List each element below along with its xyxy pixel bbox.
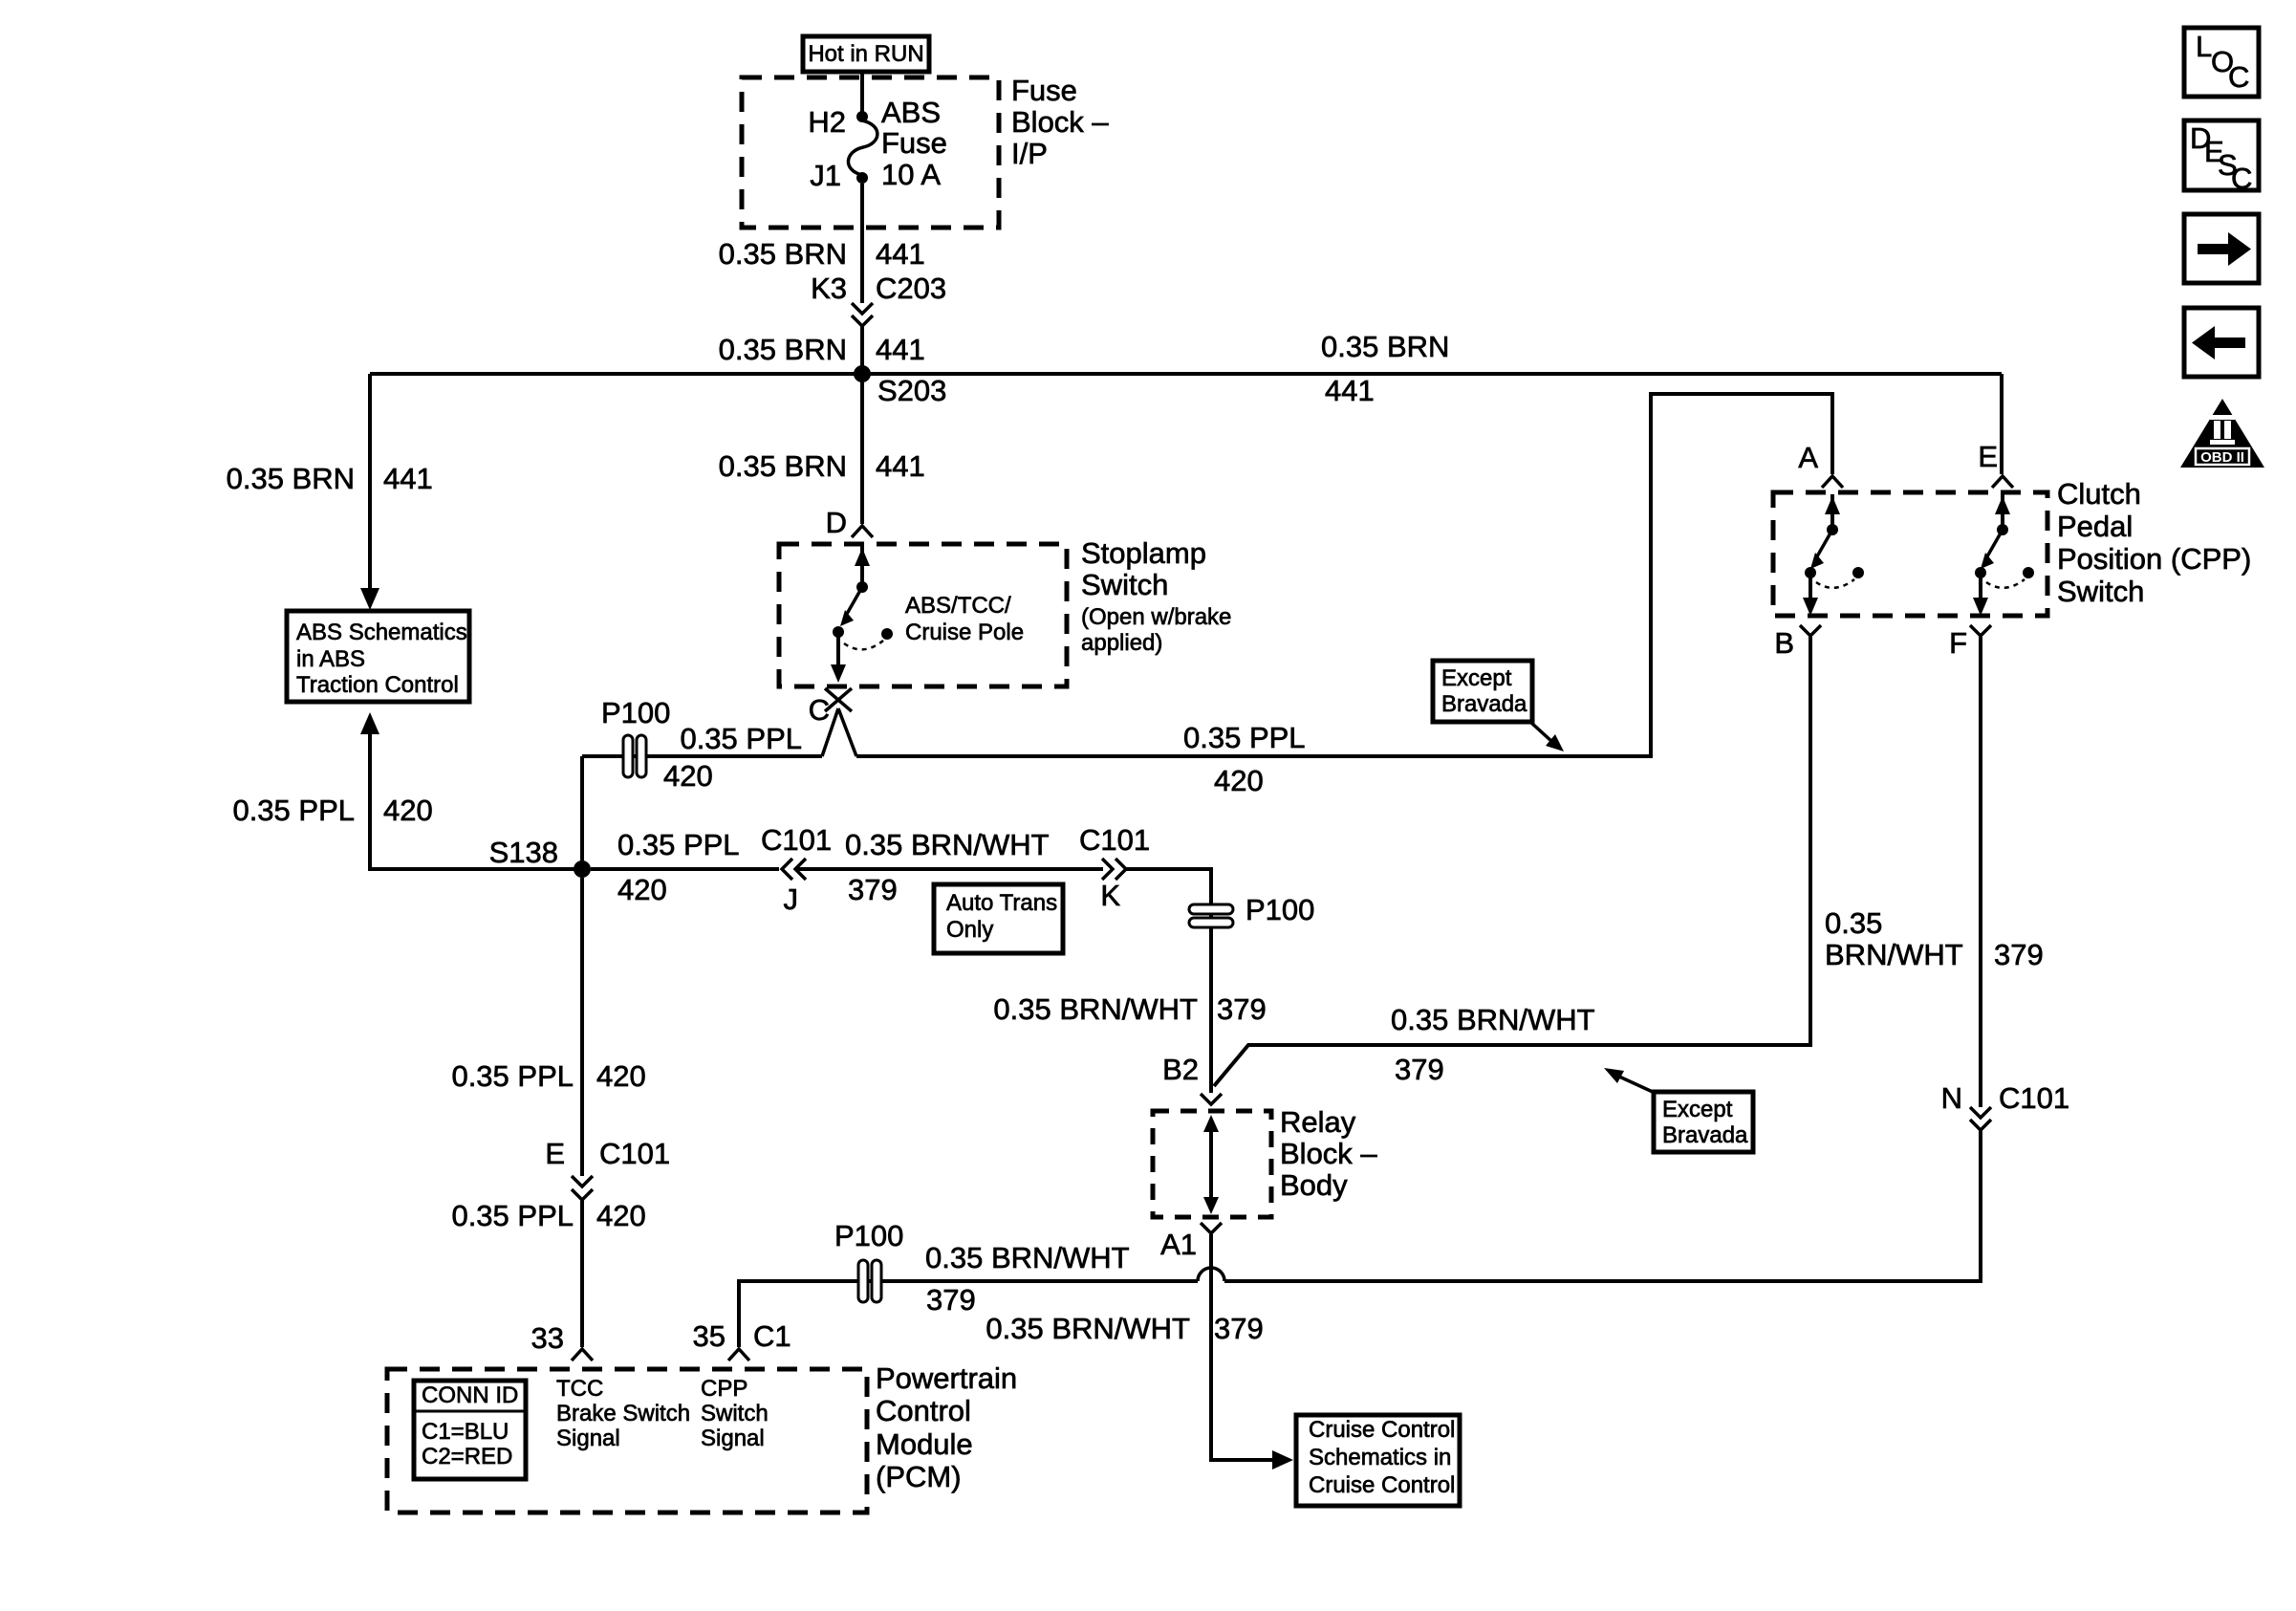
- pin D: [826, 506, 873, 539]
- svg-text:C2=RED: C2=RED: [422, 1444, 512, 1469]
- wire 420 from S138 up to ABS schematics: [232, 712, 575, 869]
- icon LOC: [2184, 28, 2259, 97]
- svg-text:Block –: Block –: [1280, 1137, 1377, 1170]
- svg-text:379: 379: [848, 873, 898, 906]
- svg-text:A: A: [1798, 441, 1818, 474]
- grommet P100: [1189, 893, 1314, 927]
- connector C101 pin J: [761, 823, 832, 916]
- svg-text:35: 35: [693, 1319, 726, 1353]
- svg-text:ABS/TCC/: ABS/TCC/: [905, 593, 1011, 619]
- pin E: [1978, 440, 2013, 488]
- svg-text:Cruise Control: Cruise Control: [1309, 1417, 1455, 1443]
- svg-text:441: 441: [876, 237, 925, 271]
- svg-text:0.35 BRN/WHT: 0.35 BRN/WHT: [925, 1241, 1130, 1274]
- legend box CONN ID C1=BLU C2=RED: [414, 1381, 526, 1479]
- svg-text:379: 379: [1994, 938, 2044, 971]
- svg-text:420: 420: [596, 1059, 646, 1093]
- svg-text:Cruise Pole: Cruise Pole: [905, 620, 1024, 645]
- svg-text:(Open w/brake: (Open w/brake: [1081, 604, 1231, 630]
- svg-text:0.35 BRN: 0.35 BRN: [719, 333, 847, 366]
- power tag Hot in RUN: [803, 36, 929, 72]
- svg-text:P100: P100: [1245, 893, 1314, 926]
- component label Powertrain Control Module (PCM): [876, 1361, 1017, 1493]
- svg-text:Auto Trans: Auto Trans: [946, 890, 1057, 916]
- icon OBD II: [2180, 399, 2264, 468]
- svg-text:TCC: TCC: [556, 1376, 603, 1402]
- svg-text:B2: B2: [1162, 1053, 1199, 1086]
- reference box Auto Trans Only: [934, 884, 1063, 953]
- svg-text:420: 420: [617, 873, 667, 906]
- component label Clutch Pedal Position (CPP) Switch: [2057, 477, 2251, 608]
- pin H2: [808, 105, 868, 139]
- svg-text:F: F: [1949, 626, 1967, 660]
- svg-text:C101: C101: [761, 823, 832, 857]
- svg-text:379: 379: [1214, 1312, 1264, 1345]
- wire 441 left branch to ABS schematics: [227, 374, 433, 610]
- svg-text:C101: C101: [599, 1137, 670, 1170]
- svg-text:441: 441: [383, 462, 433, 495]
- svg-text:0.35 PPL: 0.35 PPL: [617, 828, 740, 861]
- svg-text:0.35 BRN: 0.35 BRN: [719, 237, 847, 271]
- svg-text:Fuse: Fuse: [1011, 74, 1077, 107]
- svg-text:C: C: [2228, 60, 2249, 94]
- svg-text:BRN/WHT: BRN/WHT: [1825, 938, 1963, 971]
- svg-text:C101: C101: [1999, 1081, 2069, 1115]
- svg-text:0.35 PPL: 0.35 PPL: [1183, 721, 1306, 754]
- svg-text:420: 420: [383, 794, 433, 827]
- fuse block I/P dashed box: [742, 77, 999, 228]
- connector C101 pin E: [545, 1137, 670, 1200]
- svg-text:Cruise Control: Cruise Control: [1309, 1472, 1455, 1498]
- wire 441 from S203 to CPP switch pin E: [2000, 374, 2004, 474]
- svg-text:I/P: I/P: [1011, 137, 1048, 170]
- svg-text:S138: S138: [489, 836, 558, 869]
- svg-text:Relay: Relay: [1280, 1105, 1356, 1139]
- svg-text:Powertrain: Powertrain: [876, 1361, 1017, 1395]
- wire 441 bus S203 horizontal: [370, 330, 2002, 407]
- wire 379 from C101 J to C101 K: [797, 828, 1103, 906]
- junction S138: [489, 836, 591, 878]
- svg-text:CONN ID: CONN ID: [422, 1382, 518, 1408]
- reference box ABS Schematics in ABS Traction Control: [287, 611, 469, 702]
- pin F: [1949, 625, 1991, 660]
- svg-text:0.35 BRN/WHT: 0.35 BRN/WHT: [993, 992, 1198, 1026]
- svg-text:Except: Except: [1441, 665, 1512, 691]
- svg-text:0.35 BRN/WHT: 0.35 BRN/WHT: [845, 828, 1050, 861]
- svg-text:P100: P100: [601, 696, 670, 729]
- svg-text:33: 33: [531, 1321, 564, 1355]
- grommet P100: [601, 696, 670, 777]
- wire 379 from C101 K through P100 to relay block B2: [993, 869, 1266, 1093]
- svg-text:Fuse: Fuse: [881, 126, 947, 160]
- svg-text:Block –: Block –: [1011, 105, 1109, 139]
- svg-text:420: 420: [663, 759, 713, 793]
- svg-text:C1: C1: [753, 1319, 791, 1353]
- svg-text:Bravada: Bravada: [1441, 691, 1527, 717]
- svg-text:A1: A1: [1160, 1228, 1197, 1261]
- component label Relay Block - Body: [1280, 1105, 1377, 1202]
- connector C203 pin K3: [811, 272, 946, 326]
- svg-text:E: E: [545, 1137, 565, 1170]
- svg-text:CPP: CPP: [701, 1376, 747, 1402]
- CPP switch contact E-F: [1973, 494, 2034, 616]
- svg-text:10 A: 10 A: [881, 158, 941, 191]
- svg-text:Switch: Switch: [1081, 568, 1168, 601]
- svg-text:C: C: [2231, 162, 2252, 195]
- CPP switch dashed box: [1773, 492, 2047, 616]
- wire 420 from P100 down to S138: [580, 756, 584, 860]
- svg-text:441: 441: [876, 449, 925, 483]
- pin A1: [1160, 1223, 1222, 1261]
- icon DESC: [2184, 120, 2259, 195]
- wire 379 from B2 to CPP switch pin B: [1214, 637, 1810, 1086]
- connector C101 pin K: [1079, 823, 1150, 912]
- svg-text:C203: C203: [876, 272, 946, 305]
- svg-text:379: 379: [926, 1283, 976, 1317]
- pin B2: [1162, 1053, 1222, 1104]
- svg-text:0.35 PPL: 0.35 PPL: [232, 794, 355, 827]
- CPP switch contact A-B: [1803, 494, 1864, 616]
- stoplamp switch dashed box: [779, 544, 1067, 686]
- wire 441 from fuse to connector C203: [719, 184, 925, 303]
- pin 35 connector C1: [693, 1319, 791, 1361]
- wire 420 from S138 to C101 pin J: [591, 828, 779, 906]
- svg-text:0.35 BRN/WHT: 0.35 BRN/WHT: [986, 1312, 1190, 1345]
- icon next arrow: [2184, 214, 2259, 283]
- svg-text:Position (CPP): Position (CPP): [2057, 542, 2251, 576]
- svg-text:K: K: [1100, 879, 1120, 912]
- svg-text:Except: Except: [1662, 1097, 1733, 1122]
- svg-text:Control: Control: [876, 1394, 971, 1427]
- pin label CPP Switch Signal: [701, 1376, 769, 1451]
- svg-text:Schematics in: Schematics in: [1309, 1445, 1451, 1470]
- svg-text:in ABS: in ABS: [296, 646, 365, 672]
- svg-text:420: 420: [596, 1199, 646, 1232]
- svg-text:0.35 PPL: 0.35 PPL: [680, 722, 802, 755]
- svg-text:0.35 BRN: 0.35 BRN: [227, 462, 355, 495]
- svg-text:441: 441: [876, 333, 925, 366]
- wire 441 from S203 to stoplamp switch pin D: [719, 374, 925, 524]
- svg-text:ABS Schematics: ABS Schematics: [296, 620, 467, 645]
- svg-text:ABS: ABS: [881, 96, 941, 129]
- svg-text:E: E: [1978, 440, 1998, 473]
- pin 33: [531, 1321, 593, 1361]
- svg-text:420: 420: [1214, 764, 1264, 797]
- svg-text:C101: C101: [1079, 823, 1150, 857]
- svg-text:K3: K3: [811, 272, 847, 305]
- wire 420 from C101 E to PCM pin 33: [451, 1199, 645, 1347]
- svg-text:Bravada: Bravada: [1662, 1122, 1748, 1148]
- svg-text:J: J: [784, 882, 799, 916]
- grommet P100: [834, 1219, 903, 1302]
- PCM dashed box: [387, 1369, 867, 1513]
- svg-text:L: L: [2196, 30, 2212, 63]
- pin C splice of stoplamp output: [809, 688, 856, 756]
- svg-text:0.35 PPL: 0.35 PPL: [451, 1059, 574, 1093]
- icon back arrow: [2184, 308, 2259, 377]
- component label Stoplamp Switch: [1081, 536, 1231, 656]
- svg-text:Stoplamp: Stoplamp: [1081, 536, 1206, 570]
- wire 420 from S138 to connector C101 pin E: [451, 878, 645, 1176]
- reference arrow Except Bravada: [1433, 661, 1564, 751]
- svg-text:0.35: 0.35: [1825, 906, 1882, 940]
- pin label TCC Brake Switch Signal: [556, 1376, 690, 1451]
- connector C101 pin N: [1941, 1081, 2070, 1130]
- stoplamp switch contacts ABS/TCC/Cruise Pole: [831, 546, 1024, 683]
- svg-text:D: D: [826, 506, 847, 539]
- svg-text:0.35 BRN: 0.35 BRN: [1321, 330, 1449, 363]
- pin A: [1798, 441, 1843, 488]
- svg-text:H2: H2: [808, 105, 846, 139]
- svg-text:Pedal: Pedal: [2057, 510, 2133, 543]
- svg-text:Traction Control: Traction Control: [296, 672, 459, 698]
- wire 441 from C203 to S203: [719, 326, 925, 374]
- svg-text:applied): applied): [1081, 630, 1162, 656]
- svg-text:N: N: [1941, 1081, 1962, 1115]
- svg-text:Signal: Signal: [556, 1426, 620, 1451]
- svg-text:B: B: [1774, 626, 1794, 660]
- svg-text:(PCM): (PCM): [876, 1460, 962, 1493]
- pin J1: [810, 159, 868, 192]
- svg-text:P100: P100: [834, 1219, 903, 1252]
- svg-text:Hot in RUN: Hot in RUN: [808, 41, 923, 67]
- wire 379 from C101 N to P100 and PCM pin 35: [739, 1130, 1981, 1347]
- svg-text:Clutch: Clutch: [2057, 477, 2141, 511]
- wire from Hot in RUN to fuse pin H2: [860, 72, 864, 115]
- svg-text:C1=BLU: C1=BLU: [422, 1419, 509, 1445]
- svg-text:379: 379: [1395, 1053, 1444, 1086]
- reference box Cruise Control Schematics in Cruise Control: [1296, 1415, 1460, 1506]
- relay block body dashed box: [1153, 1111, 1271, 1217]
- svg-text:441: 441: [1325, 374, 1375, 407]
- wire 379 from F to connector C101 pin N: [1825, 637, 2044, 1107]
- svg-text:OBD II: OBD II: [2200, 449, 2244, 466]
- fuse ABS Fuse 10 A: [848, 96, 946, 191]
- junction S203: [854, 365, 946, 407]
- svg-text:Brake Switch: Brake Switch: [556, 1401, 690, 1426]
- svg-text:0.35 PPL: 0.35 PPL: [451, 1199, 574, 1232]
- component label Fuse Block - I/P: [1011, 74, 1109, 170]
- wire 420 from C left through P100 to S138: [582, 722, 822, 793]
- relay block internal wire B2 to A1: [1203, 1115, 1219, 1214]
- wire 379 from A1 to cruise control schematics: [986, 1234, 1293, 1469]
- svg-text:Body: Body: [1280, 1168, 1348, 1202]
- svg-text:0.35 BRN/WHT: 0.35 BRN/WHT: [1391, 1003, 1595, 1036]
- svg-text:Only: Only: [946, 917, 993, 943]
- svg-text:Signal: Signal: [701, 1426, 765, 1451]
- svg-text:S203: S203: [877, 374, 946, 407]
- svg-text:379: 379: [1217, 992, 1267, 1026]
- svg-text:Switch: Switch: [2057, 575, 2144, 608]
- reference arrow Except Bravada: [1604, 1068, 1753, 1152]
- svg-text:Switch: Switch: [701, 1401, 769, 1426]
- svg-text:Module: Module: [876, 1427, 973, 1461]
- wire 420 from C right to CPP switch pin A: [856, 394, 1832, 797]
- svg-text:0.35 BRN: 0.35 BRN: [719, 449, 847, 483]
- svg-text:J1: J1: [810, 159, 841, 192]
- pin B: [1774, 625, 1821, 660]
